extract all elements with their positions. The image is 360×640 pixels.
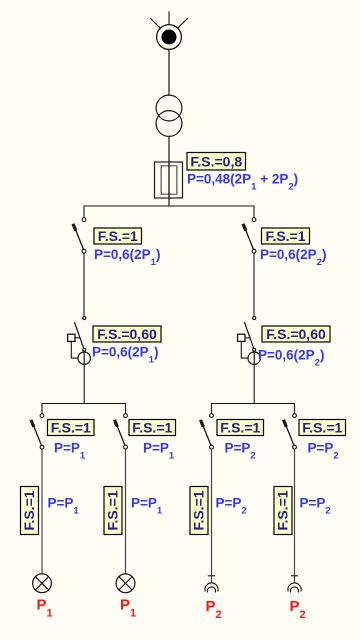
svg-text:P=P2: P=P2	[225, 441, 256, 462]
svg-text:P=P1: P=P1	[143, 441, 175, 462]
wire group feeder 1	[41, 449, 43, 574]
label F.S.=1 (vertical) feeder 2	[104, 487, 122, 535]
svg-text:F.S.=1: F.S.=1	[51, 420, 91, 436]
label F.S.=1 (vertical) feeder 4	[274, 487, 292, 535]
svg-text:P=P2: P=P2	[300, 496, 331, 517]
svg-text:F.S.=1: F.S.=1	[191, 490, 207, 530]
wire source to transformer	[168, 49, 170, 95]
label F.S.=1 (QS1)	[94, 228, 142, 244]
svg-text:F.S.=1: F.S.=1	[21, 490, 37, 530]
label F.S.=1 (QS5)	[217, 420, 264, 436]
label F.S.=0,8	[187, 153, 246, 171]
svg-text:P=P1: P=P1	[54, 441, 86, 462]
svg-text:P=0,6(2P1): P=0,6(2P1)	[94, 247, 160, 268]
svg-text:F.S.=1: F.S.=1	[105, 490, 121, 530]
label F.S.=1 (QS3)	[48, 420, 95, 436]
power source (supply network)	[150, 11, 187, 49]
wire QF2 to bus 2b	[253, 364, 255, 403]
label F.S.=1 (QS6)	[299, 420, 346, 436]
switch QS6	[284, 414, 297, 449]
switch QS1	[73, 218, 86, 253]
fuse FU1	[155, 162, 183, 198]
wire group feeder 3	[211, 449, 213, 583]
svg-text:P=P2: P=P2	[216, 496, 247, 517]
svg-text:P=P1: P=P1	[131, 496, 163, 517]
label F.S.=0,60 (QF1)	[93, 326, 161, 342]
svg-text:F.S.=1: F.S.=1	[275, 490, 291, 530]
label F.S.=1 (vertical) feeder 3	[190, 487, 208, 535]
svg-text:F.S.=0,60: F.S.=0,60	[97, 326, 157, 342]
svg-text:P2: P2	[206, 598, 222, 621]
bus level 2 left	[42, 404, 126, 414]
switch QS3	[31, 414, 44, 449]
label F.S.=1 (QS4)	[129, 420, 176, 436]
lamp EL1	[33, 574, 52, 593]
bus level 1	[84, 206, 254, 218]
svg-text:P=0,48(2P1 + 2P2): P=0,48(2P1 + 2P2)	[187, 172, 298, 193]
svg-text:F.S.=0,60: F.S.=0,60	[266, 326, 326, 342]
svg-text:F.S.=1: F.S.=1	[220, 420, 260, 436]
label F.S.=1 (vertical) feeder 1	[21, 487, 39, 535]
circuit breaker with meter QF1	[68, 316, 91, 364]
svg-text:P=0,6(2P2): P=0,6(2P2)	[258, 348, 324, 369]
label F.S.=1 (QS2)	[262, 228, 310, 244]
wire QS1 to breaker	[83, 253, 85, 316]
bus level 2 right	[212, 404, 295, 414]
label F.S.=0,60 (QF2)	[262, 326, 330, 342]
transformer T1	[156, 95, 182, 136]
svg-text:F.S.=1: F.S.=1	[98, 228, 138, 244]
svg-text:P=0,6(2P1): P=0,6(2P1)	[92, 345, 158, 366]
svg-text:F.S.=1: F.S.=1	[132, 420, 172, 436]
switch QS4	[115, 414, 128, 449]
svg-text:P1: P1	[120, 597, 136, 620]
svg-text:P=P2: P=P2	[308, 441, 339, 462]
svg-text:P2: P2	[290, 598, 306, 621]
wire group feeder 2	[125, 449, 127, 574]
svg-text:P1: P1	[37, 597, 53, 620]
svg-text:F.S.=1: F.S.=1	[302, 420, 342, 436]
wire transformer to fuse	[168, 136, 170, 162]
wire group feeder 4	[294, 449, 296, 583]
socket outlet XS2	[288, 576, 301, 593]
wire fuse to bus	[168, 198, 170, 206]
svg-text:F.S.=1: F.S.=1	[265, 228, 305, 244]
lamp EL2	[116, 574, 135, 593]
svg-text:F.S.=0,8: F.S.=0,8	[190, 153, 242, 169]
wire QF1 to bus 2a	[83, 364, 85, 403]
wire QS2 to breaker	[253, 253, 255, 316]
switch QS5	[201, 414, 214, 449]
switch QS2	[243, 218, 256, 253]
circuit breaker with meter QF2	[238, 316, 261, 364]
svg-text:P=0,6(2P2): P=0,6(2P2)	[260, 247, 326, 268]
socket outlet XS1	[205, 576, 218, 593]
svg-text:P=P1: P=P1	[48, 496, 80, 517]
